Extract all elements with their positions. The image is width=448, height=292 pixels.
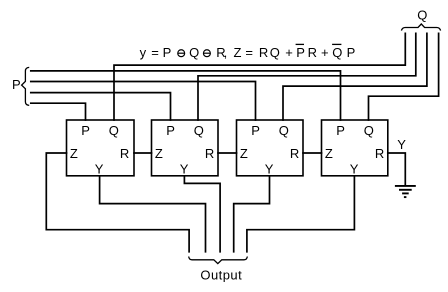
svg-text:R: R — [259, 45, 268, 60]
svg-text:Z: Z — [240, 146, 248, 161]
svg-text:Z: Z — [155, 146, 163, 161]
svg-text:P: P — [12, 77, 21, 92]
svg-text:=: = — [151, 45, 159, 60]
svg-text:Z: Z — [70, 146, 78, 161]
svg-text:+: + — [285, 45, 293, 60]
adder box U1 — [67, 120, 135, 176]
svg-text:P: P — [347, 45, 356, 60]
svg-text:Y: Y — [350, 162, 359, 177]
svg-text:Y: Y — [397, 137, 406, 152]
wire Y3 output — [234, 176, 270, 252]
svg-text:Q: Q — [189, 45, 199, 60]
svg-text:R: R — [120, 146, 129, 161]
wire Q bus line 4 — [369, 33, 439, 120]
svg-text:=: = — [245, 45, 253, 60]
brace for P inputs — [22, 67, 30, 105]
wire Y4 output — [247, 176, 355, 252]
wire P bus line 1 — [31, 71, 341, 120]
brace for Q inputs — [401, 24, 440, 31]
wire R1 to Z2 — [134, 152, 152, 154]
xor symbol 1 — [178, 50, 185, 57]
wire R2 to Z3 — [218, 152, 237, 154]
svg-text:P: P — [251, 123, 260, 138]
svg-text:,: , — [224, 45, 228, 60]
svg-text:Q: Q — [417, 7, 427, 22]
equation: y = P xor Q xor R, Z = RQ + PbarR + QbarP — [140, 44, 356, 60]
svg-text:P: P — [336, 123, 345, 138]
svg-text:P: P — [166, 123, 175, 138]
wire Y1 output — [100, 176, 206, 252]
svg-text:Q: Q — [279, 123, 289, 138]
svg-text:Y: Y — [180, 162, 189, 177]
svg-text:+: + — [321, 45, 329, 60]
svg-text:P: P — [163, 45, 172, 60]
wire R3 to Z4 — [303, 152, 322, 154]
svg-text:Y: Y — [265, 162, 274, 177]
wire Y2 output — [184, 176, 220, 252]
wire P bus line 4 — [31, 103, 86, 120]
svg-text:Q: Q — [109, 123, 119, 138]
brace for Output — [189, 257, 248, 264]
svg-text:R: R — [308, 45, 317, 60]
svg-text:Y: Y — [95, 162, 104, 177]
wire Q bus line 1 — [114, 33, 405, 120]
adder box U3 — [237, 120, 304, 176]
adder box U2 — [152, 120, 219, 176]
ground symbol — [395, 186, 416, 197]
svg-text:Q: Q — [270, 45, 280, 60]
svg-text:Z: Z — [325, 146, 333, 161]
svg-text:Q: Q — [194, 123, 204, 138]
svg-text:R: R — [375, 146, 384, 161]
svg-text:Output: Output — [200, 267, 242, 282]
svg-text:y: y — [140, 45, 147, 60]
wire Q bus line 3 — [283, 33, 427, 120]
wire P bus line 2 — [31, 82, 256, 121]
svg-text:P: P — [296, 45, 305, 60]
svg-text:Q: Q — [364, 123, 374, 138]
wire R4 to ground — [388, 153, 406, 185]
svg-text:Z: Z — [234, 45, 242, 60]
adder box U4 — [322, 120, 388, 176]
wire P bus line 3 — [31, 93, 171, 120]
svg-text:R: R — [290, 146, 299, 161]
wire Q bus line 2 — [198, 33, 416, 120]
svg-text:P: P — [81, 123, 90, 138]
xor symbol 2 — [203, 50, 210, 57]
wire Z1 output to bottom brace — [46, 153, 189, 252]
svg-text:R: R — [205, 146, 214, 161]
svg-text:Q: Q — [332, 45, 342, 60]
